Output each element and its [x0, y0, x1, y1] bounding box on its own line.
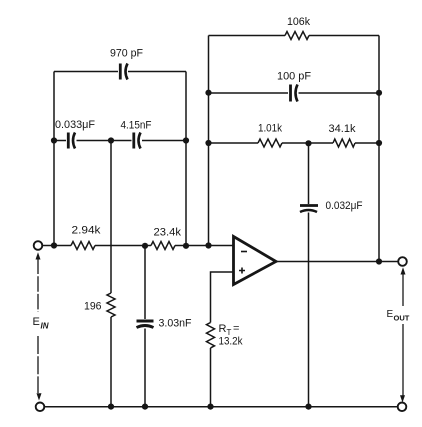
terminal: input top (open circle) [34, 241, 43, 250]
wire: 106k top line y=35 [209, 35, 380, 37]
wire: 0.032uF branch vertical x=309 [308, 143, 310, 406]
node: dot at right end of 34.1k line [376, 140, 382, 146]
label 100 pF [277, 71, 311, 83]
svg-text:IN: IN [41, 322, 49, 331]
wire: bottom rail y=406.5 [45, 406, 398, 408]
svg-text:0.032μF: 0.032μF [326, 200, 363, 212]
EOUT line upper [402, 274, 404, 307]
wire: non-inverting input, y=272 then down x=210.5 [211, 272, 234, 323]
node: dot input line at x=207.5 (inverting input) [205, 242, 211, 248]
label 4.15nF [121, 120, 152, 132]
node: dot at left end of 1.01k line [205, 140, 211, 146]
terminal: output bottom (open circle) [398, 403, 407, 412]
wire: left vertical x=54 from top box to input line [53, 72, 55, 246]
label 34.1k [329, 123, 356, 135]
capacitor C 0.032uF [300, 206, 318, 213]
resistor R 1.01k [258, 139, 282, 147]
capacitor C 0.033uF [68, 133, 75, 149]
node: dot output at x=378.5 [376, 258, 382, 264]
svg-text:1.01k: 1.01k [258, 123, 282, 135]
EIN dashed line upper [37, 259, 39, 313]
wire: 3.03nF branch vertical x=145 [144, 246, 146, 407]
svg-text:100 pF: 100 pF [277, 71, 311, 83]
label 196 [84, 301, 102, 313]
wire: feedback network left vertical x=207.5 [208, 36, 210, 246]
resistor R 106k [285, 32, 309, 40]
label 2.94k [72, 225, 102, 237]
EOUT arrow up [401, 267, 406, 274]
svg-text:970 pF: 970 pF [110, 48, 143, 60]
label RT = [219, 323, 240, 338]
resistor R 23.4k [151, 242, 175, 250]
capacitor C 970pF [120, 64, 127, 80]
op-amp U1 plus sign [239, 268, 245, 274]
EIN arrow down [37, 393, 42, 400]
svg-text:34.1k: 34.1k [329, 123, 356, 135]
svg-text:4.15nF: 4.15nF [121, 120, 152, 132]
label 13.2k [219, 336, 243, 348]
wire: RT lower lead down to bottom rail [210, 348, 212, 407]
svg-text:2.94k: 2.94k [72, 225, 102, 237]
label 3.03nF [159, 318, 192, 330]
svg-text:23.4k: 23.4k [154, 227, 182, 239]
EIN dashed line lower [37, 336, 39, 393]
resistor RT 13.2k (vertical) [207, 323, 215, 348]
node: junction dot middle cap line [108, 137, 114, 143]
label EIN [33, 316, 49, 331]
EOUT arrow down [400, 395, 405, 402]
label 0.032uF [326, 200, 363, 212]
svg-text:3.03nF: 3.03nF [159, 318, 192, 330]
label 23.4k [154, 227, 182, 239]
EIN arrow up [36, 252, 41, 259]
svg-text:R: R [219, 323, 227, 335]
wire: feedback network right vertical x=378.5 [378, 36, 380, 262]
svg-text:106k: 106k [287, 16, 310, 28]
wire: main input line y=245.5 [43, 245, 234, 247]
label 1.01k [258, 123, 282, 135]
wire: 100pF line y=93 [209, 92, 380, 94]
svg-text:=: = [233, 323, 239, 335]
node: dot between 1.01k and 34.1k [305, 140, 311, 146]
node: dot input line at x=186 [183, 243, 189, 249]
svg-text:196: 196 [84, 301, 102, 313]
label 0.033uF [55, 119, 95, 131]
node: dot bottom rail x=145 [142, 404, 148, 410]
capacitor C 3.03nF [137, 321, 154, 328]
node: dot bottom rail x=111 [108, 404, 114, 410]
terminal: input bottom (open circle) [36, 403, 45, 412]
resistor R 196 (vertical) [107, 293, 115, 317]
svg-text:13.2k: 13.2k [219, 336, 243, 348]
node: junction dot left cap line [51, 137, 57, 143]
wire: op-amp output y=261.5 [276, 261, 398, 263]
svg-text:0.033μF: 0.033μF [55, 119, 95, 131]
node: dot at right end of 100pF line [376, 90, 382, 96]
capacitor C 4.15nF [134, 133, 141, 149]
node: dot bottom rail x=309 [305, 404, 311, 410]
node: junction dot right cap line [183, 137, 189, 143]
wire: top-left box top segment (970pF branch), y=71.5 [54, 71, 186, 73]
EOUT line lower [402, 324, 404, 396]
resistor R 2.94k [71, 242, 95, 250]
terminal: output top (open circle) [398, 257, 407, 266]
svg-text:E: E [33, 316, 40, 328]
node: dot bottom rail x=210.5 [207, 404, 213, 410]
op-amp U1 minus sign [241, 251, 247, 253]
capacitor C 100pF [291, 85, 298, 102]
op-amp U1 [234, 237, 277, 285]
node: dot at left end of 100pF line [205, 90, 211, 96]
svg-text:E: E [387, 309, 394, 320]
label EOUT [387, 309, 410, 323]
wire: middle cap line y=140.5 [54, 140, 186, 142]
wire: 196 branch vertical x=111 [110, 141, 112, 407]
label 970 pF [110, 48, 143, 60]
resistor R 34.1k [333, 139, 355, 147]
wire: 1.01k / 34.1k line y=144 [209, 142, 380, 144]
wire: right vertical of cap box x=186 [185, 72, 187, 246]
label 106k [287, 16, 310, 28]
node: dot input line at x=145 (3.03nF tap) [142, 243, 148, 249]
node: dot input line at x=54 [51, 242, 57, 248]
svg-text:OUT: OUT [394, 314, 410, 323]
